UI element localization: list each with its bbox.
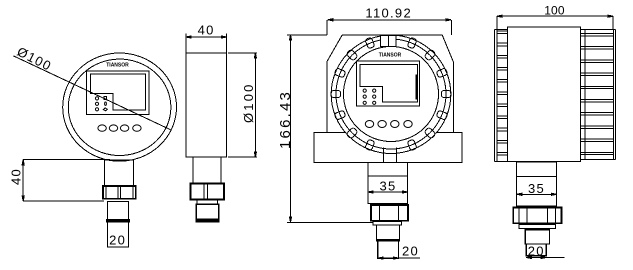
bottom tab lines — [383, 148, 396, 163]
display LCD L-shape — [91, 74, 146, 110]
svg-text:166.43: 166.43 — [277, 90, 294, 149]
hex nut view3 — [371, 205, 408, 221]
right ribs view4 — [581, 30, 616, 160]
svg-text:100: 100 — [544, 4, 565, 18]
stem shoulder band view1 — [107, 219, 130, 222]
stem lower (thread) view1 — [108, 222, 129, 247]
svg-text:20: 20 — [109, 233, 126, 248]
dim 20 view3 — [378, 257, 420, 259]
svg-text:110.92: 110.92 — [365, 5, 412, 20]
svg-text:TIANSOR: TIANSOR — [379, 53, 402, 59]
display LCD L-shape view3 — [360, 64, 418, 102]
dim Ø100 view2: extension + dimension lines — [228, 53, 257, 157]
button 4 — [133, 125, 141, 131]
neck block view4 — [517, 162, 557, 206]
svg-text:35: 35 — [528, 181, 545, 196]
svg-text:40: 40 — [198, 23, 215, 38]
stem upper view2 — [197, 199, 218, 204]
indicator dots left column — [95, 97, 98, 100]
display side bar view3 — [416, 74, 418, 99]
neck block view1 — [105, 160, 134, 186]
svg-text:Ø100: Ø100 — [241, 82, 256, 123]
stem lower view4 — [526, 244, 546, 256]
central body rect view4 — [508, 27, 581, 161]
gauge inner bezel circle — [68, 59, 171, 155]
bezel inner circle — [344, 47, 439, 142]
dim 110.92 lines — [328, 19, 451, 21]
svg-text:20: 20 — [528, 244, 545, 259]
dim 100 lines — [497, 15, 613, 17]
display outer rect view3 — [357, 61, 420, 106]
dim 166.43 lines — [287, 35, 373, 223]
stem lower view2 — [196, 204, 219, 222]
bezel second circle — [336, 39, 446, 149]
neck block view3 — [368, 162, 408, 203]
housing plate with chamfered corners — [327, 35, 454, 132]
bezel teeth — [331, 37, 451, 151]
dots view3 — [363, 89, 366, 92]
left ribs view4 — [495, 30, 508, 162]
indicator oval — [105, 102, 107, 105]
neck block view2 — [193, 157, 221, 184]
svg-text:35: 35 — [379, 179, 396, 194]
stem upper view3 — [377, 225, 400, 240]
svg-text:TIANSOR: TIANSOR — [106, 62, 129, 68]
button 2 — [109, 125, 117, 131]
dim 40 view2: dimension line — [186, 36, 227, 38]
mounting base — [314, 132, 462, 162]
hex nut view1 — [103, 186, 136, 199]
bezel outer circle — [331, 35, 451, 153]
buttons view3 — [365, 121, 373, 128]
indicator diamond — [103, 108, 107, 111]
button 1 — [98, 125, 106, 131]
hex nut view2 — [191, 184, 224, 200]
stem upper view1 — [108, 201, 129, 219]
gauge outer bezel circle — [63, 53, 177, 161]
display outer rect — [87, 71, 149, 115]
svg-text:20: 20 — [402, 244, 419, 259]
top tab — [380, 36, 396, 47]
svg-text:40: 40 — [9, 168, 24, 185]
dim 20 view4 — [526, 257, 564, 259]
dim 40 view1: extension lines — [23, 160, 110, 201]
indicator square — [104, 97, 106, 100]
dim 40 view1: dimension line — [22, 160, 24, 201]
body rect view2 — [186, 53, 227, 157]
stem upper view4 — [525, 230, 549, 244]
stem lower view3 — [378, 241, 399, 258]
hex nut view4 — [513, 208, 561, 224]
leader line Ø100 view1 — [13, 56, 171, 130]
button 3 — [120, 125, 128, 131]
dim 35 view3 — [368, 191, 408, 193]
dim 35 view4 — [517, 193, 557, 195]
washer band view3 — [373, 222, 402, 225]
washer band view4 — [519, 225, 555, 229]
